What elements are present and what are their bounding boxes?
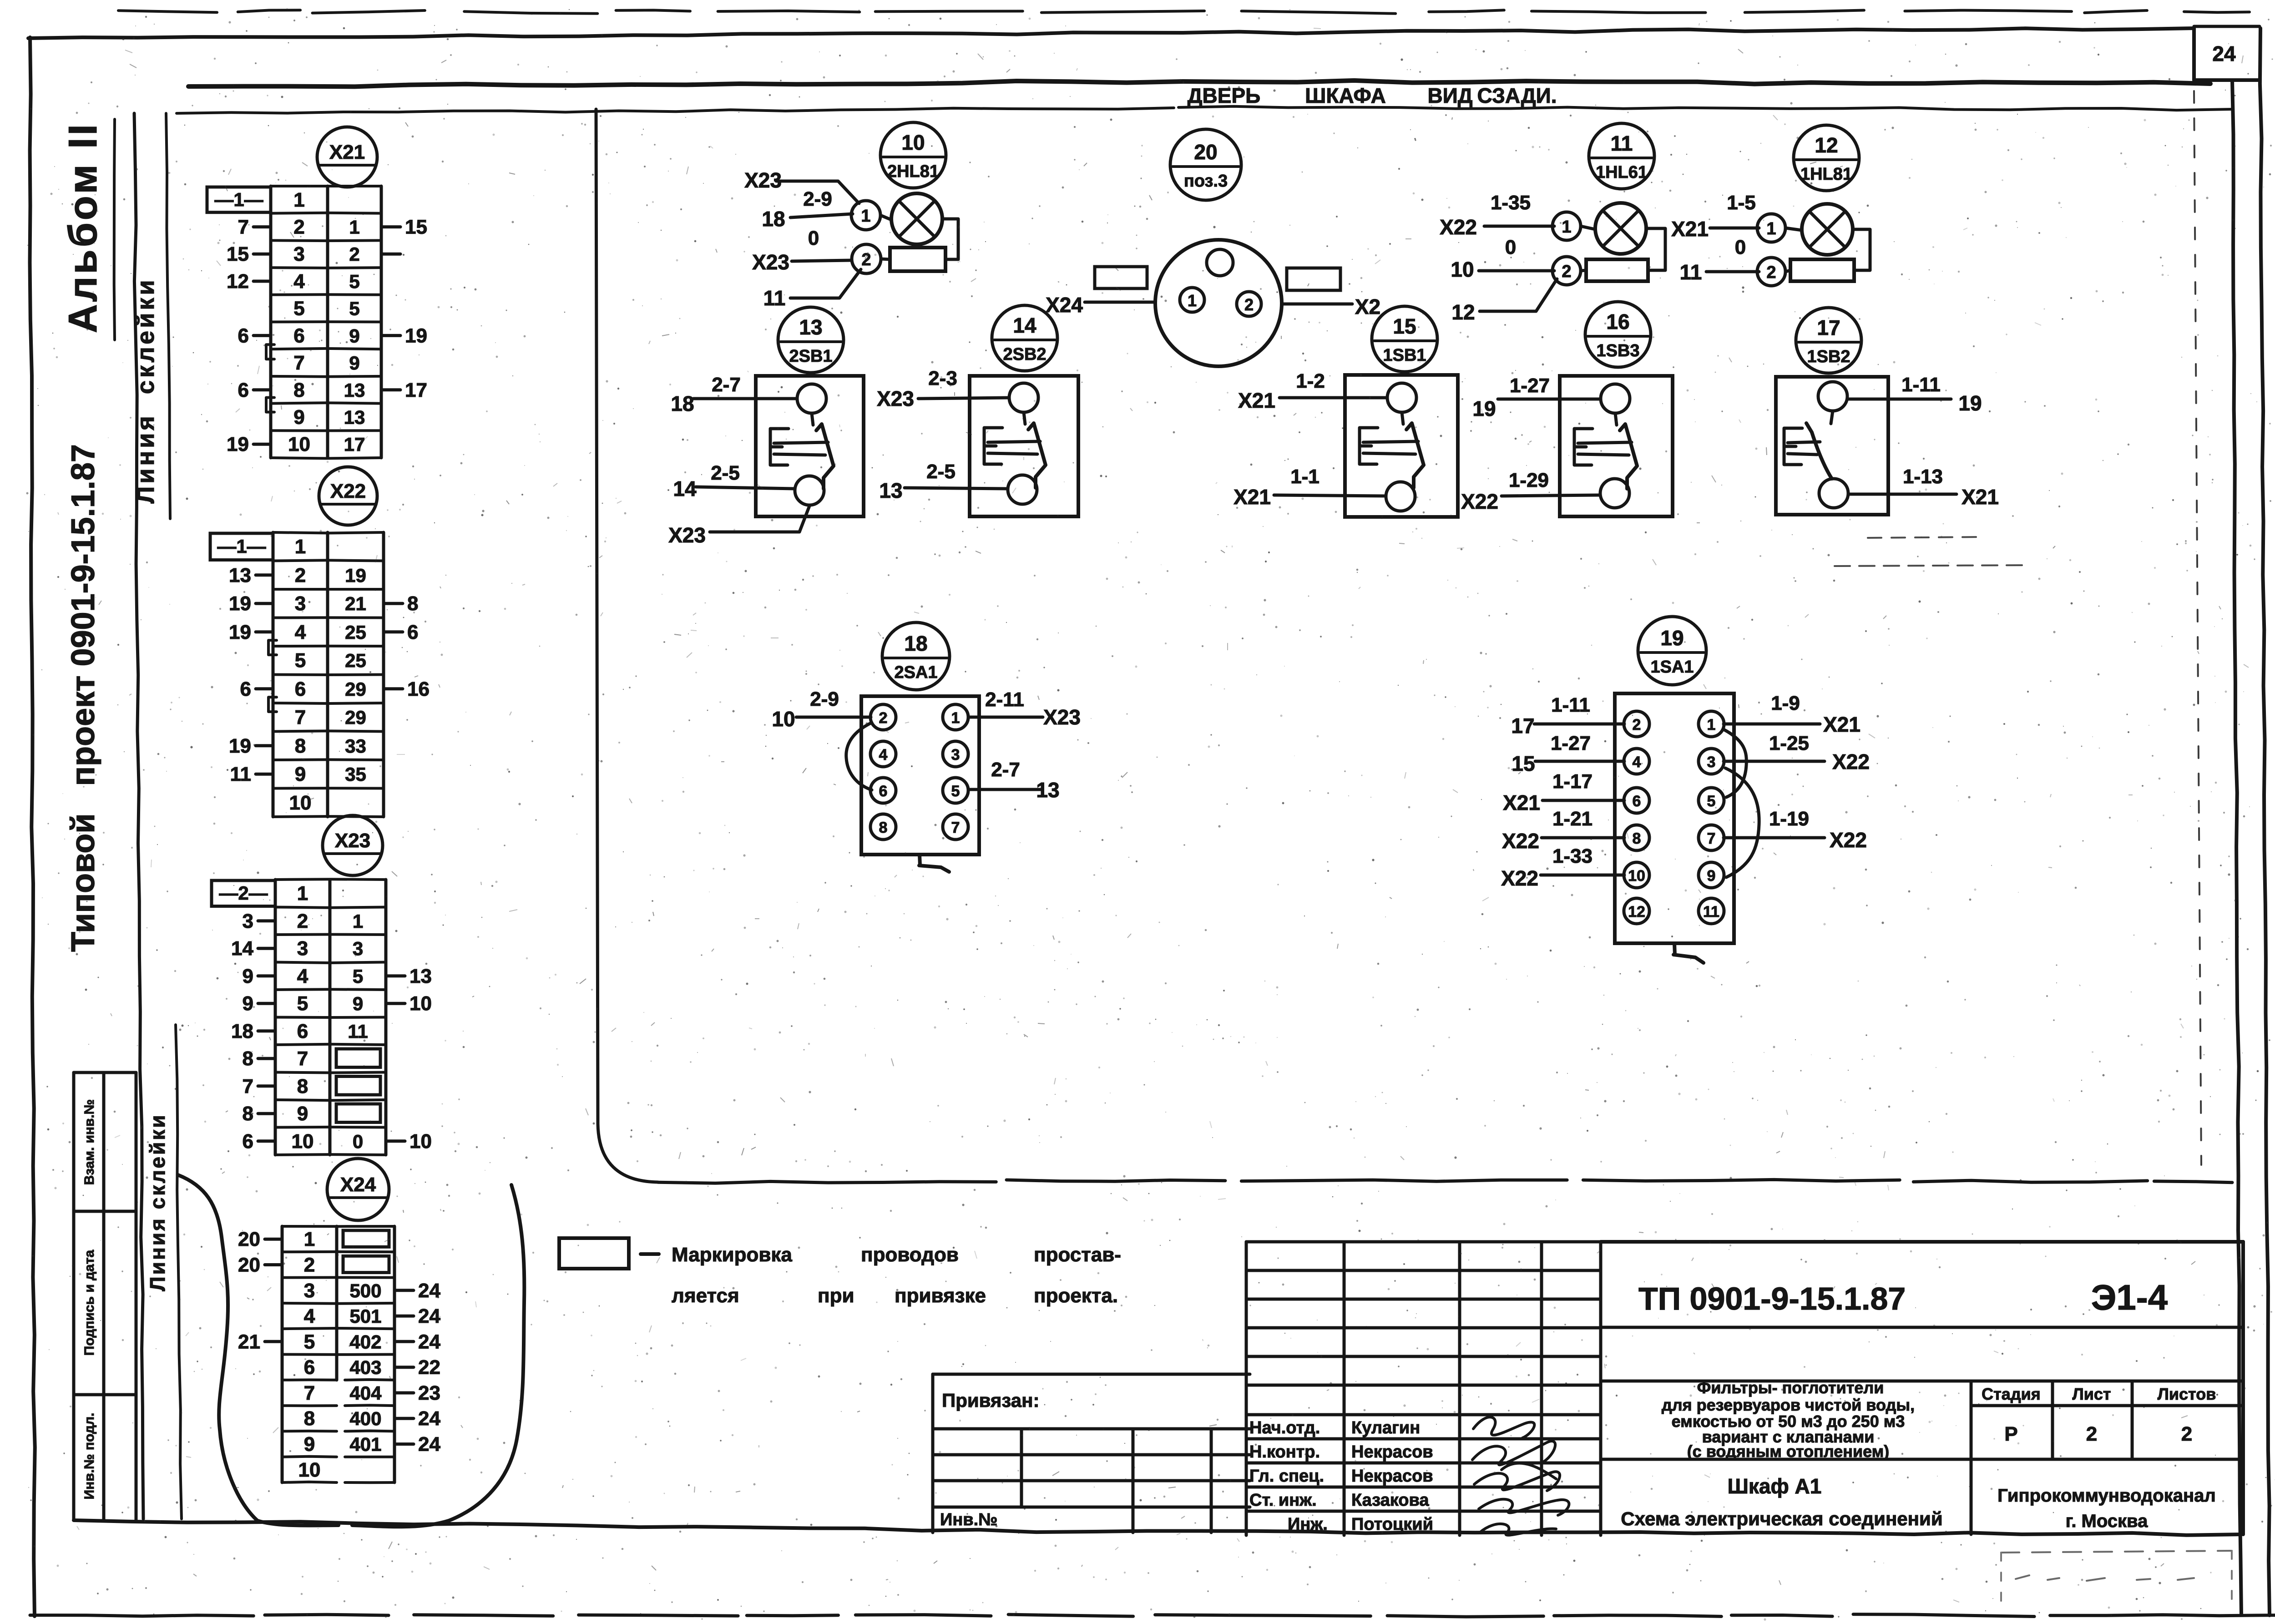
svg-text:15: 15 <box>405 216 427 238</box>
wire X23 to 2SB1 bottom terminal <box>710 506 809 532</box>
lamp socket center contact <box>1207 249 1233 276</box>
svg-text:24: 24 <box>418 1305 440 1327</box>
svg-text:6: 6 <box>407 621 418 643</box>
terminal block X22 group marker box &#8212;1&#8212; <box>210 533 273 560</box>
svg-text:СЗАДИ.: СЗАДИ. <box>1477 84 1557 107</box>
title block outer <box>1245 1242 1248 1535</box>
svg-text:19: 19 <box>229 592 251 615</box>
svg-text:9: 9 <box>349 325 359 346</box>
wire X24 to поз.3 <box>1085 301 1155 304</box>
pushbutton 2SB1 contact stem <box>812 413 813 425</box>
svg-text:2-9: 2-9 <box>803 188 832 210</box>
svg-text:Кулагин: Кулагин <box>1351 1418 1420 1437</box>
lamp socket rear view поз.3 <box>1155 240 1282 366</box>
svg-text:5: 5 <box>297 992 308 1015</box>
terminal block X23 empty marking box row 8 <box>336 1077 380 1095</box>
wire terminal1 to bulb <box>1785 228 1802 230</box>
svg-text:16: 16 <box>407 678 430 700</box>
pushbutton 1SB1 body box <box>1345 375 1458 517</box>
svg-text:привязке: привязке <box>895 1285 986 1307</box>
svg-text:X21: X21 <box>1503 791 1540 815</box>
svg-text:1SB2: 1SB2 <box>1807 347 1850 366</box>
svg-text:1-27: 1-27 <box>1551 732 1591 754</box>
svg-text:2SA1: 2SA1 <box>894 663 937 682</box>
terminal block X21 left wire stub row 6 label 6 <box>253 334 271 337</box>
svg-text:402: 402 <box>349 1331 381 1352</box>
terminal block X23 table <box>274 880 277 1155</box>
terminal block X24 right wire stub row 3 label 24 <box>394 1289 414 1292</box>
svg-text:X21: X21 <box>1823 713 1860 736</box>
pushbutton 2SB2 body box <box>970 376 1078 516</box>
svg-text:1: 1 <box>861 207 870 226</box>
inner frame top line <box>177 108 1174 113</box>
svg-text:19: 19 <box>229 621 251 643</box>
svg-text:1-17: 1-17 <box>1552 770 1592 793</box>
terminal block X21 jumper bracket <box>266 344 274 359</box>
schematic area border (door outline) <box>596 109 658 1182</box>
svg-text:9: 9 <box>304 1433 315 1456</box>
svg-text:X22: X22 <box>1461 490 1498 513</box>
svg-text:13: 13 <box>344 407 365 428</box>
svg-text:9: 9 <box>353 993 363 1014</box>
wire terminal2 to resistor <box>881 259 890 259</box>
svg-text:9: 9 <box>293 406 304 429</box>
svg-text:Линия склейки: Линия склейки <box>146 1113 169 1291</box>
lamp 1HL81 terminal 2 <box>1757 258 1785 286</box>
pushbutton 1SB2 contact stem <box>1831 411 1833 424</box>
terminal block X22 left wire stub row 3 label 19 <box>256 602 273 605</box>
svg-text:Нач.отд.: Нач.отд. <box>1249 1418 1320 1437</box>
splice strip second line top <box>166 113 170 519</box>
svg-text:Альбом II: Альбом II <box>60 122 105 333</box>
lamp 1HL61 ballast resistor <box>1586 259 1648 281</box>
switch pin 8 <box>870 814 896 840</box>
terminal block X23 left wire stub row 9 label 8 <box>258 1112 275 1115</box>
lamp 1HL81 terminal 1 <box>1757 214 1785 242</box>
svg-text:6: 6 <box>295 678 306 700</box>
switch pin 7 <box>1699 825 1724 850</box>
svg-text:7: 7 <box>304 1382 315 1404</box>
terminal block X24 right wire stub row 4 label 24 <box>394 1315 414 1318</box>
terminal block X23 right wire stub row 5 label 10 <box>386 1002 405 1005</box>
lamp 1HL61 bulb symbol <box>1595 203 1646 254</box>
svg-text:5: 5 <box>304 1331 315 1353</box>
svg-text:3: 3 <box>951 746 960 764</box>
svg-text:Казакова: Казакова <box>1351 1491 1429 1510</box>
svg-text:12: 12 <box>1815 133 1838 157</box>
terminal block X24 empty marking box row 1 <box>343 1230 389 1247</box>
lamp 1HL61 terminal 2 <box>1552 257 1581 285</box>
svg-text:Шкаф А1: Шкаф А1 <box>1728 1474 1822 1498</box>
wire terminal1 to bulb <box>880 215 891 220</box>
terminal block X23 group marker box &#8212;2&#8212; <box>212 880 275 906</box>
svg-text:9: 9 <box>349 352 359 374</box>
svg-text:7: 7 <box>295 706 306 729</box>
pushbutton 1SB1 actuator (E bracket) <box>1360 428 1378 464</box>
terminal block X23 left wire stub row 7 label 8 <box>258 1057 275 1060</box>
terminal block X24 right wire stub row 9 label 24 <box>394 1442 414 1446</box>
svg-text:Лист: Лист <box>2072 1385 2111 1403</box>
svg-text:17: 17 <box>405 379 427 401</box>
svg-text:X22: X22 <box>1440 215 1477 239</box>
svg-text:7: 7 <box>243 1075 253 1098</box>
svg-text:(с водяным отоплением): (с водяным отоплением) <box>1687 1442 1890 1461</box>
wire bulb to resistor (right loop) <box>1646 228 1665 270</box>
pushbutton 2SB1 moving contact <box>816 424 834 489</box>
pushbutton 2SB2 actuator (E bracket) <box>984 428 1002 464</box>
svg-text:Схема электрическая соединен: Схема электрическая соединений <box>1621 1508 1942 1529</box>
terminal block X21 left wire stub row 2 label 7 <box>253 225 271 228</box>
svg-text:18: 18 <box>762 207 785 231</box>
svg-text:ДВЕРЬ: ДВЕРЬ <box>1188 84 1260 107</box>
splice strip second line bottom <box>176 1025 182 1519</box>
pushbutton 1SB3 contact stem <box>1615 413 1617 425</box>
pushbutton 1SB3 designator circle 16/1SB3 <box>1585 302 1651 367</box>
terminal block X22 designator circle <box>319 467 377 525</box>
svg-text:1-25: 1-25 <box>1769 732 1809 754</box>
svg-text:2-3: 2-3 <box>928 367 957 390</box>
svg-text:4: 4 <box>879 746 888 764</box>
svg-text:2SB2: 2SB2 <box>1003 345 1046 364</box>
svg-text:10: 10 <box>901 131 925 154</box>
svg-text:X23: X23 <box>668 523 706 547</box>
svg-text:500: 500 <box>349 1280 381 1301</box>
svg-text:19: 19 <box>345 565 366 586</box>
svg-text:при: при <box>818 1285 854 1307</box>
svg-text:8: 8 <box>293 379 304 401</box>
splice line horizontal (линия склейки top) <box>188 81 1183 86</box>
svg-text:17: 17 <box>344 434 365 455</box>
pushbutton 1SB1 designator circle 15/1SB1 <box>1372 306 1437 372</box>
switch pin 9 <box>1699 862 1724 888</box>
svg-text:Листов: Листов <box>2158 1385 2216 1403</box>
svg-text:X22: X22 <box>1501 866 1538 890</box>
svg-text:404: 404 <box>349 1382 382 1404</box>
svg-text:4: 4 <box>295 621 306 643</box>
svg-text:X22: X22 <box>1832 750 1870 774</box>
switch pin 8 <box>1624 825 1649 850</box>
terminal block X22 right wire stub row 4 label 6 <box>384 630 403 633</box>
svg-text:24: 24 <box>418 1280 440 1302</box>
pushbutton 1SB2 moving contact <box>1806 423 1832 479</box>
svg-text:18: 18 <box>231 1020 253 1042</box>
switch pin 1 <box>1699 711 1724 737</box>
svg-text:1-1: 1-1 <box>1290 465 1319 488</box>
pushbutton 1SB1 moving contact <box>1406 423 1424 488</box>
svg-text:29: 29 <box>345 678 366 700</box>
terminal block X24 right wire stub row 6 label 22 <box>394 1366 414 1369</box>
wire bulb to resistor (right loop) <box>1853 229 1870 270</box>
terminal block X23 right wire stub row 4 label 13 <box>386 974 405 977</box>
terminal block X22 left wire stub row 9 label 11 <box>256 773 273 776</box>
pushbutton 1SB3 actuator push rods <box>1578 442 1632 443</box>
terminal block X21 right wire stub row 2 label 15 <box>381 225 400 228</box>
pushbutton 2SB2 top terminal <box>1009 383 1038 412</box>
svg-text:2-7: 2-7 <box>991 759 1020 781</box>
svg-text:1SA1: 1SA1 <box>1650 658 1694 677</box>
svg-text:X24: X24 <box>340 1174 376 1196</box>
svg-text:2: 2 <box>1766 263 1776 282</box>
svg-text:19: 19 <box>1958 391 1982 415</box>
svg-text:5: 5 <box>295 649 306 672</box>
svg-text:400: 400 <box>349 1408 381 1429</box>
svg-text:9: 9 <box>1707 867 1716 885</box>
terminal block X21 table <box>269 186 273 458</box>
terminal block X21 left wire stub row 3 label 15 <box>253 253 271 256</box>
lamp 2HL81 ballast resistor <box>890 248 945 271</box>
terminal block X23 left wire stub row 10 label 6 <box>258 1139 275 1143</box>
svg-text:8: 8 <box>297 1075 308 1098</box>
svg-text:Инж.: Инж. <box>1288 1515 1328 1534</box>
svg-text:1-21: 1-21 <box>1552 808 1592 830</box>
erased marks under 1SB2 <box>1868 537 1984 538</box>
wire terminal2 to resistor <box>1581 270 1586 271</box>
svg-text:6: 6 <box>293 324 304 347</box>
svg-text:3: 3 <box>293 243 304 265</box>
svg-text:Инв.№ подл.: Инв.№ подл. <box>82 1413 97 1500</box>
svg-text:Н.контр.: Н.контр. <box>1249 1442 1320 1462</box>
svg-text:1-19: 1-19 <box>1769 808 1809 830</box>
svg-text:1: 1 <box>353 911 363 932</box>
svg-text:5: 5 <box>349 298 359 319</box>
svg-text:8: 8 <box>243 1047 253 1070</box>
pushbutton 1SB3 top terminal <box>1601 384 1630 413</box>
lamp 2HL81 designator circle 10/2HL81 <box>880 122 946 188</box>
lamp 1HL61 designator circle 11/1HL61 <box>1589 123 1654 189</box>
sheet border bottom (dashed scan edge) <box>30 1615 253 1616</box>
switch 1SA1 designator circle 19/1SA1 <box>1638 617 1706 685</box>
svg-text:X21: X21 <box>329 141 365 163</box>
svg-text:8: 8 <box>295 735 306 757</box>
lamp 2HL81 terminal 2 <box>852 244 881 273</box>
terminal block X21 right wire stub row 6 label 19 <box>381 334 400 337</box>
pushbutton 2SB1 body box <box>756 376 864 516</box>
terminal block X23 empty marking box row 7 <box>336 1049 380 1067</box>
svg-text:0: 0 <box>1505 236 1516 258</box>
svg-text:2: 2 <box>2086 1423 2097 1445</box>
svg-text:простав-: простав- <box>1034 1244 1121 1266</box>
terminal block X21 group marker box &#8212;1&#8212; <box>207 187 271 212</box>
svg-text:проводов: проводов <box>861 1244 959 1266</box>
svg-text:2-9: 2-9 <box>810 688 839 710</box>
svg-text:35: 35 <box>345 764 366 785</box>
svg-text:2: 2 <box>861 250 871 269</box>
svg-text:X21: X21 <box>1962 485 1999 509</box>
switch pin 6 <box>1624 788 1649 813</box>
svg-text:1-33: 1-33 <box>1552 845 1592 867</box>
svg-text:Типовой проект 0901-9-15.1.8: Типовой проект 0901-9-15.1.87 <box>65 444 101 952</box>
svg-text:X23: X23 <box>877 387 914 410</box>
svg-text:Инв.№: Инв.№ <box>940 1510 998 1529</box>
svg-text:г. Москва: г. Москва <box>2066 1511 2148 1531</box>
terminal block X21 right wire stub row 8 label 17 <box>381 388 400 391</box>
switch pin 6 <box>870 778 896 803</box>
svg-text:5: 5 <box>353 966 363 987</box>
svg-text:1-11: 1-11 <box>1901 374 1941 396</box>
svg-text:11: 11 <box>763 286 786 310</box>
terminal block X24 left wire stub row 5 label 21 <box>265 1340 282 1343</box>
svg-text:2HL81: 2HL81 <box>887 162 939 181</box>
svg-text:22: 22 <box>418 1356 440 1379</box>
svg-text:Э1-4: Э1-4 <box>2091 1277 2168 1317</box>
svg-text:1: 1 <box>295 536 306 558</box>
switch 1SA1 body box <box>1615 693 1734 943</box>
svg-text:10: 10 <box>409 992 432 1015</box>
svg-text:10: 10 <box>298 1459 321 1481</box>
pushbutton 1SB2 bottom terminal <box>1819 479 1848 508</box>
svg-text:ТП 0901-9-15.1.87: ТП 0901-9-15.1.87 <box>1638 1281 1906 1316</box>
svg-text:11: 11 <box>348 1021 368 1042</box>
splice freehand curve right of X24 <box>449 1185 524 1521</box>
svg-text:3: 3 <box>297 937 308 960</box>
svg-text:20: 20 <box>238 1254 260 1276</box>
svg-text:8: 8 <box>879 819 888 836</box>
svg-text:19: 19 <box>229 735 251 757</box>
svg-text:20: 20 <box>238 1228 260 1250</box>
svg-text:2: 2 <box>297 910 308 932</box>
terminal block X22 left wire stub row 2 label 13 <box>256 573 273 577</box>
svg-text:9: 9 <box>243 992 253 1015</box>
terminal block X23 right wire stub row 10 label 10 <box>386 1139 405 1143</box>
svg-text:14: 14 <box>1013 314 1036 337</box>
svg-text:10: 10 <box>772 707 795 731</box>
svg-text:ШКАФА: ШКАФА <box>1305 84 1386 107</box>
svg-text:2: 2 <box>1562 262 1571 281</box>
svg-text:1: 1 <box>293 189 304 211</box>
svg-text:X21: X21 <box>1238 389 1275 412</box>
svg-text:21: 21 <box>345 593 366 614</box>
pushbutton 2SB2 moving contact <box>1028 423 1046 488</box>
svg-text:6: 6 <box>240 678 251 700</box>
terminal block X24 left wire stub row 2 label 20 <box>265 1263 282 1266</box>
svg-text:9: 9 <box>295 763 306 785</box>
svg-text:2: 2 <box>295 564 306 587</box>
pushbutton 2SB1 actuator push rods <box>774 442 828 443</box>
svg-text:X22: X22 <box>1830 828 1867 852</box>
terminal block X24 empty marking box row 2 <box>343 1256 389 1272</box>
svg-text:19: 19 <box>405 324 427 347</box>
switch pin 12 <box>1624 898 1649 924</box>
faint vertical scan line right <box>2194 91 2201 1165</box>
svg-text:12: 12 <box>227 270 249 293</box>
svg-text:X23: X23 <box>1043 705 1081 729</box>
wire X23 to 2HL81 terminal 1 <box>776 181 859 203</box>
sheet border top <box>28 32 1183 38</box>
svg-text:2SB1: 2SB1 <box>789 347 832 366</box>
svg-text:1: 1 <box>1766 219 1776 238</box>
svg-text:7: 7 <box>293 352 304 374</box>
svg-text:18: 18 <box>904 632 927 655</box>
title block main cell border <box>1601 1240 2243 1244</box>
pushbutton 1SB1 bottom terminal <box>1386 482 1415 511</box>
jumper 1SA1 pin3 to pin9 <box>1725 768 1759 877</box>
svg-text:7: 7 <box>951 819 960 836</box>
pushbutton 1SB1 actuator push rods <box>1363 441 1418 442</box>
svg-text:X21: X21 <box>1671 217 1709 241</box>
terminal block X24 table <box>281 1226 284 1482</box>
pushbutton 2SB2 designator circle 14/2SB2 <box>992 305 1057 371</box>
sheet paper top edge (scan artifact) <box>118 10 217 12</box>
terminal block X24 right wire stub row 8 label 24 <box>394 1417 414 1420</box>
lamp socket terminal 1 <box>1180 288 1204 312</box>
svg-text:13: 13 <box>344 379 365 401</box>
svg-text:15: 15 <box>1393 314 1416 338</box>
svg-text:11: 11 <box>230 763 251 785</box>
svg-text:проекта.: проекта. <box>1034 1285 1118 1307</box>
svg-text:21: 21 <box>238 1331 260 1353</box>
switch pin 5 <box>943 778 968 803</box>
svg-text:24: 24 <box>2212 42 2236 66</box>
switch pin 11 <box>1699 898 1724 924</box>
legend dash <box>641 1252 659 1256</box>
svg-text:14: 14 <box>673 477 697 501</box>
svg-text:Р: Р <box>2004 1423 2017 1445</box>
svg-text:23: 23 <box>418 1382 440 1404</box>
pushbutton 1SB2 top terminal <box>1818 382 1847 411</box>
svg-text:24: 24 <box>418 1433 440 1456</box>
terminal block X23 left wire stub row 8 label 7 <box>258 1084 275 1088</box>
svg-text:ляется: ляется <box>672 1285 739 1307</box>
pushbutton 1SB3 moving contact <box>1620 424 1637 489</box>
svg-text:12: 12 <box>1451 300 1475 324</box>
svg-text:6: 6 <box>243 1130 253 1153</box>
switch pin 10 <box>1624 862 1649 888</box>
terminal block X22 right wire stub row 3 label 8 <box>384 602 403 605</box>
stage-sheet columns <box>1970 1381 1973 1534</box>
terminal block X21 left wire stub row 4 label 12 <box>253 280 271 283</box>
svg-text:1: 1 <box>349 217 359 238</box>
terminal block X23 left wire stub row 2 label 3 <box>258 919 275 922</box>
svg-text:401: 401 <box>349 1434 381 1455</box>
switch pin 4 <box>870 741 896 767</box>
svg-text:7: 7 <box>297 1047 308 1070</box>
svg-text:1-9: 1-9 <box>1771 692 1800 714</box>
svg-text:5: 5 <box>951 783 960 800</box>
svg-text:10: 10 <box>409 1130 432 1153</box>
lamp 1HL81 ballast resistor <box>1790 259 1854 281</box>
svg-text:15: 15 <box>1512 752 1535 775</box>
terminal block X22 left wire stub row 6 label 6 <box>256 687 273 690</box>
page number box <box>2192 27 2196 80</box>
lamp 1HL81 bulb symbol <box>1802 204 1853 255</box>
svg-text:Подпись и дата: Подпись и дата <box>82 1250 97 1356</box>
terminal block X22 right wire stub row 6 label 16 <box>384 687 403 690</box>
svg-text:Привязан:: Привязан: <box>942 1390 1039 1411</box>
svg-text:X23: X23 <box>752 250 789 274</box>
svg-text:6: 6 <box>297 1020 308 1042</box>
svg-text:33: 33 <box>345 735 366 757</box>
terminal block X24 left wire stub row 1 label 20 <box>265 1238 282 1241</box>
terminal block X23 left wire stub row 6 label 18 <box>258 1029 275 1032</box>
terminal block X24 right wire stub row 7 label 23 <box>394 1391 414 1395</box>
terminal block X21 jumper bracket <box>266 398 274 412</box>
pushbutton 2SB1 bottom terminal <box>795 476 824 505</box>
lamp 1HL61 terminal 1 <box>1552 212 1581 240</box>
svg-text:ВИД: ВИД <box>1427 84 1472 107</box>
lamp 2HL81 bulb symbol <box>891 193 942 244</box>
svg-text:0: 0 <box>353 1131 363 1152</box>
terminal block X23 left wire stub row 3 label 14 <box>258 947 275 950</box>
svg-text:19: 19 <box>1472 397 1496 420</box>
svg-text:3: 3 <box>353 938 363 959</box>
svg-text:1-11: 1-11 <box>1551 694 1590 716</box>
svg-text:3: 3 <box>304 1280 315 1302</box>
svg-text:—1—: —1— <box>214 189 263 210</box>
terminal block X22 jumper bracket <box>268 697 277 712</box>
pushbutton 1SB1 contact stem <box>1402 412 1403 424</box>
switch pin 3 <box>943 741 968 767</box>
svg-text:5: 5 <box>1707 793 1716 810</box>
